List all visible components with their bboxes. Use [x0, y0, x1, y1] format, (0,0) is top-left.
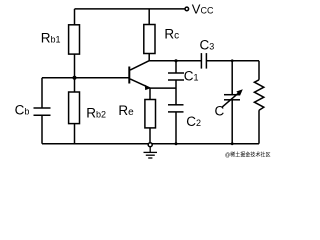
wire Re bottom lead	[149, 128, 151, 144]
wire Rb2 top lead	[74, 78, 76, 92]
svg-text:C3: C3	[200, 38, 215, 53]
wire Re top lead	[149, 88, 151, 99]
wire Rb1 top lead	[74, 9, 76, 25]
resistor Re	[145, 100, 156, 128]
wire right branch top corner	[258, 61, 260, 80]
ground symbol	[144, 147, 158, 158]
wire Rb2 bottom lead	[74, 124, 76, 144]
wire variable cap bottom lead	[231, 100, 233, 144]
wire collector horizontal left of C3	[149, 60, 202, 62]
wire C1 top lead	[175, 61, 177, 73]
capacitor C2	[168, 105, 184, 112]
node base junction dot	[73, 76, 77, 80]
wire emitter horizontal	[150, 87, 176, 89]
node ground junction ring	[148, 143, 152, 147]
svg-text:C1: C1	[184, 69, 199, 84]
wire Rb1 bottom lead	[74, 54, 76, 78]
resistor Rb2	[69, 92, 80, 124]
wire collector horizontal right of C3	[206, 60, 259, 62]
wire Rc top lead	[148, 9, 150, 25]
wire Cb top lead	[41, 78, 43, 108]
wire Rc bottom lead	[148, 54, 150, 61]
svg-text:C2: C2	[186, 114, 201, 129]
svg-text:@稀土掘金技术社区: @稀土掘金技术社区	[225, 150, 271, 158]
svg-text:Rb2: Rb2	[86, 106, 106, 121]
capacitor C1	[168, 73, 184, 80]
node dot tank bottom	[231, 142, 234, 145]
svg-text:Rb1: Rb1	[41, 30, 61, 45]
capacitor Cb	[34, 108, 51, 115]
wire variable cap top lead	[231, 61, 233, 95]
wire zigzag bottom lead	[258, 110, 260, 144]
svg-text:Cb: Cb	[15, 103, 30, 118]
capacitor C variable	[224, 95, 240, 100]
node dot at tank top	[231, 59, 234, 62]
node dot C2 bottom	[175, 142, 178, 145]
wire bottom rail	[42, 143, 259, 145]
inductor/resistor zigzag right branch	[254, 80, 263, 111]
wire Cb bottom lead	[41, 115, 43, 143]
transistor Q1 collector lead	[130, 61, 149, 70]
wire C2 bottom lead	[175, 112, 177, 144]
svg-text:C: C	[215, 104, 225, 119]
node VCC terminal circle	[185, 7, 189, 11]
svg-text:Re: Re	[118, 103, 134, 118]
svg-text:VCC: VCC	[192, 2, 214, 17]
wire top rail VCC	[75, 8, 185, 10]
capacitor C3	[201, 53, 206, 69]
resistor Rc	[144, 25, 155, 54]
svg-text:Rc: Rc	[164, 27, 179, 42]
node dot at C1 top	[174, 59, 177, 62]
variable cap arrow	[222, 91, 241, 107]
transistor Q1 emitter lead with arrow	[130, 79, 150, 88]
transistor Q1 base bar	[128, 67, 130, 84]
wire base horizontal	[42, 77, 129, 79]
wire C1 to C2	[175, 80, 177, 105]
resistor Rb1	[69, 25, 80, 54]
